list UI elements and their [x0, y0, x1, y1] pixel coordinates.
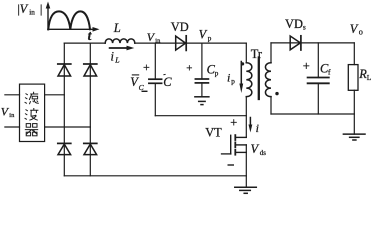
label ip [227, 71, 235, 86]
transformer primary bottom wire to drain [245, 97, 247, 138]
wire filter to left column [45, 94, 65, 96]
secondary bottom wire [270, 97, 272, 114]
ground under Cp [195, 97, 209, 105]
svg-text:in: in [9, 112, 15, 119]
capacitor C [149, 79, 162, 83]
label Vp [199, 28, 212, 43]
bridge diode D4 (bottom-right) [84, 143, 97, 154]
output vertical wire [353, 43, 355, 65]
svg-text:L: L [113, 21, 121, 35]
ground under RL [343, 134, 365, 140]
svg-text:i: i [227, 71, 230, 85]
primary polarity dot [241, 62, 244, 65]
label Cf [320, 62, 331, 77]
diode VDs [290, 36, 301, 50]
MOSFET source stub [235, 151, 246, 153]
capacitor Cf [308, 78, 329, 84]
inductor L coil [105, 39, 135, 43]
filter box [20, 84, 45, 141]
svg-text:+: + [186, 62, 192, 74]
svg-text:L: L [367, 73, 372, 82]
MOSFET drain stub [235, 136, 246, 138]
filter box character lv (滤) [25, 92, 39, 104]
svg-text:+: + [143, 60, 150, 74]
transformer secondary winding [265, 63, 271, 97]
waveform |Vin| plot y-axis [46, 2, 51, 30]
label - (cap C) [142, 90, 148, 92]
svg-text:VD: VD [171, 20, 189, 34]
svg-text:in: in [29, 8, 35, 16]
svg-text:p: p [215, 69, 219, 77]
MOSFET body stub [235, 144, 246, 146]
bridge left column wire [63, 43, 65, 176]
svg-text:p: p [208, 34, 212, 42]
capacitor Cf stem [317, 43, 319, 78]
svg-text:o: o [359, 28, 363, 37]
diode VD [176, 36, 187, 51]
capacitor C branch wire top [154, 43, 156, 79]
label C [163, 74, 172, 89]
RL lower wire [353, 90, 355, 134]
transformer primary top wire [245, 43, 247, 63]
svg-text:ds: ds [260, 150, 266, 157]
label iL [111, 50, 120, 65]
waveform rectified sine humps [48, 11, 90, 29]
label |Vin| [17, 2, 43, 16]
svg-text:+: + [303, 59, 310, 73]
wire inductor to transformer primary (through VD) [135, 42, 247, 44]
secondary top wire [270, 43, 272, 63]
svg-text:VT: VT [205, 125, 222, 139]
svg-text:+: + [230, 116, 237, 130]
bridge diode D2 (top-right) [84, 64, 97, 76]
transformer primary winding [246, 63, 252, 97]
label - (VT source) [228, 164, 235, 166]
ip arrow [239, 62, 243, 94]
input wire upper [5, 94, 20, 96]
svg-text:|: | [39, 2, 42, 16]
drain current i arrow [249, 118, 253, 133]
bridge right column wire [89, 43, 91, 176]
label Vin node [147, 30, 161, 45]
MOSFET source vertical [245, 145, 247, 187]
secondary top wire (through VDs to output) [271, 42, 354, 44]
MOSFET gate bar [230, 135, 232, 154]
svg-text:Tr: Tr [251, 47, 263, 61]
filter box character bo (波) [25, 108, 39, 120]
capacitor C bottom wire [154, 83, 156, 115]
label Vds [251, 142, 267, 157]
bottom rail wire [64, 175, 246, 177]
secondary polarity dot [275, 92, 278, 95]
Cf bottom stem [317, 83, 319, 114]
capacitor Cp [195, 79, 208, 83]
capacitor Cp branch wire [201, 43, 203, 79]
secondary bottom rail [271, 113, 354, 115]
MOSFET VT gate lead [222, 153, 231, 155]
label Vin input [1, 104, 15, 119]
transformer core [258, 58, 260, 100]
ground under MOSFET source [235, 187, 256, 193]
label Vc with bar [130, 75, 144, 92]
svg-text:i: i [256, 121, 259, 135]
svg-text:in: in [155, 37, 161, 44]
top rail wire (left segment to inductor) [64, 42, 105, 44]
svg-text:i: i [111, 50, 115, 64]
filter box character qi (器) [25, 124, 38, 136]
input wire lower [5, 126, 20, 128]
resistor RL [348, 65, 358, 91]
svg-text:L: L [114, 56, 119, 65]
svg-text:s: s [303, 22, 306, 31]
label VDs [285, 17, 306, 32]
waveform x-axis [48, 27, 100, 32]
label Vo [350, 22, 363, 37]
wire filter to right column [45, 126, 91, 128]
label Cp [207, 62, 219, 77]
Cp lower stem [201, 83, 203, 97]
wire C bottom to drain node [155, 115, 246, 117]
bridge diode D3 (bottom-left) [58, 143, 71, 154]
svg-text:p: p [231, 78, 235, 86]
label RL [358, 67, 372, 82]
svg-text:VD: VD [285, 17, 303, 31]
bridge diode D1 (top-left) [58, 64, 71, 76]
iL arrow [110, 46, 135, 51]
MOSFET channel segments [234, 135, 236, 155]
svg-text:C: C [163, 75, 172, 89]
